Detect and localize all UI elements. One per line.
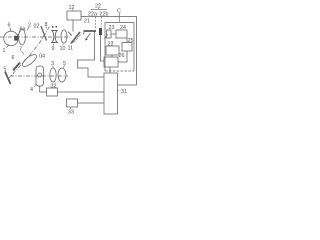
label 6 (filter) bbox=[12, 55, 15, 61]
detector 23 bbox=[107, 30, 112, 38]
svg-text:1: 1 bbox=[3, 48, 6, 54]
wire optical axis (horizontal, lower) bbox=[10, 75, 68, 77]
svg-text:12: 12 bbox=[69, 5, 75, 11]
svg-text:26: 26 bbox=[119, 53, 125, 59]
controller box 31 (tall) bbox=[104, 73, 118, 114]
lamp 6 (circle source) bbox=[4, 31, 18, 45]
label 5 (lens) bbox=[63, 61, 66, 67]
label 26 bbox=[119, 53, 125, 59]
wire 27 to 26 bbox=[111, 55, 113, 57]
label 8 bbox=[45, 22, 48, 28]
svg-text:6: 6 bbox=[12, 55, 15, 61]
lens 2 (vertical ellipse) bbox=[19, 29, 26, 45]
wire box33 to box31 bbox=[78, 102, 105, 104]
svg-text:7: 7 bbox=[19, 47, 22, 53]
lens 7 (tilted ellipse) bbox=[21, 53, 39, 69]
label 9 bbox=[52, 46, 55, 52]
label 1 (bottom-left pointer) bbox=[3, 48, 6, 54]
wire 25 to 26 bbox=[118, 51, 127, 62]
wire capsule4 to box32 to box31 bbox=[40, 86, 104, 92]
label 7 bbox=[19, 47, 22, 53]
wire 23 to 24 bbox=[111, 33, 116, 35]
svg-text:C: C bbox=[117, 9, 121, 15]
wire box12 to mirror 11 bbox=[72, 20, 74, 32]
box 33 bbox=[67, 99, 78, 107]
label 32 bbox=[51, 84, 57, 90]
wire diagonal beam bbox=[9, 27, 50, 79]
wire optical axis (horizontal, upper) bbox=[0, 36, 70, 38]
svg-text:33: 33 bbox=[68, 110, 74, 116]
label 22b bbox=[100, 12, 109, 18]
lens 3 (ellipse) bbox=[50, 68, 56, 82]
box 26 bbox=[104, 57, 118, 67]
lens 5 (circle) bbox=[58, 68, 66, 82]
svg-text:31: 31 bbox=[121, 89, 127, 95]
label 6a bbox=[20, 27, 26, 33]
svg-text:22: 22 bbox=[95, 4, 101, 10]
box 27 bbox=[106, 46, 119, 55]
svg-text:25: 25 bbox=[128, 38, 134, 44]
svg-text:3: 3 bbox=[51, 61, 54, 67]
label 4 bbox=[30, 87, 33, 93]
svg-text:22b: 22b bbox=[100, 12, 109, 18]
wire sensor B to box26 bbox=[101, 35, 105, 61]
label 23 bbox=[109, 25, 115, 31]
sensor element 22b (dark blob) bbox=[99, 28, 102, 35]
svg-text:10: 10 bbox=[60, 46, 66, 52]
label 21 bbox=[84, 19, 90, 25]
svg-text:21: 21 bbox=[84, 19, 90, 25]
lens 9 (biconcave hourglass) bbox=[51, 31, 58, 43]
bracket under 22 bbox=[91, 9, 107, 11]
label 31 bbox=[121, 89, 127, 95]
wire box12 right around to box31 bbox=[81, 17, 137, 86]
label 3 bbox=[51, 61, 54, 67]
svg-text:02: 02 bbox=[34, 24, 40, 30]
label 22 bbox=[95, 4, 101, 10]
label 25 bbox=[128, 38, 134, 44]
wire 24 to 25 bbox=[126, 38, 128, 43]
wire 26 to 31 bbox=[109, 67, 111, 73]
label C bbox=[117, 9, 121, 15]
label 11 bbox=[68, 46, 74, 52]
beam arrow at 21 bbox=[86, 34, 91, 40]
svg-text:9: 9 bbox=[52, 46, 55, 52]
svg-text:32: 32 bbox=[51, 84, 57, 90]
box 12 bbox=[67, 11, 81, 20]
mirror 5 (lower-left steep bar) bbox=[5, 72, 11, 85]
box 25 bbox=[122, 43, 132, 52]
box 32 bbox=[47, 88, 58, 96]
label 04 bbox=[39, 54, 45, 60]
label 22a bbox=[88, 12, 97, 18]
label 12 bbox=[69, 5, 75, 11]
dots above lens 9 bbox=[52, 26, 53, 28]
svg-text:11: 11 bbox=[68, 46, 74, 52]
label 24 bbox=[120, 25, 126, 31]
svg-text:27: 27 bbox=[108, 42, 114, 48]
svg-text:4: 4 bbox=[30, 87, 33, 93]
label 2 bbox=[28, 23, 31, 29]
beam arrow into mirror 11 bbox=[68, 32, 72, 36]
label 27 bbox=[108, 42, 114, 48]
control unit box C bbox=[105, 23, 134, 72]
label 10 bbox=[60, 46, 66, 52]
filter 6 (upper slanted bar on diagonal) bbox=[13, 63, 20, 71]
svg-text:04: 04 bbox=[39, 54, 45, 60]
mirror 11 (hatched slanted bar) bbox=[71, 32, 80, 44]
label 33 bbox=[68, 110, 74, 116]
label 02 bbox=[34, 24, 40, 30]
lens 10 (vertical ellipse) bbox=[61, 30, 67, 43]
lamp filament 6a (dark square) bbox=[14, 36, 18, 41]
cell 4 (vertical capsule) bbox=[36, 66, 44, 86]
box 24 bbox=[116, 30, 127, 38]
mirror plate 21 (dark bar) bbox=[84, 30, 97, 32]
beamsplitter 8 (slanted plate) bbox=[41, 26, 47, 41]
label 6 (top) bbox=[8, 23, 11, 29]
wire sensor A staircase to box31 bbox=[78, 31, 105, 77]
label 5 (mirror) bbox=[4, 67, 7, 73]
svg-text:5: 5 bbox=[4, 67, 7, 73]
